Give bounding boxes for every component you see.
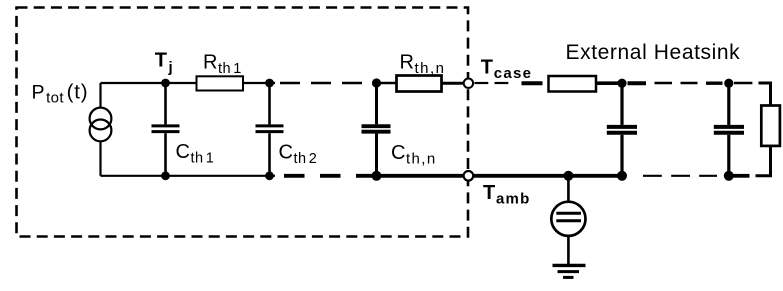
heatsink resistor (horizontal) [549, 76, 597, 92]
bottom rail dashed thick (continuation) [284, 174, 372, 178]
node T_j [161, 79, 170, 88]
heatsink capacitor 1 [607, 83, 637, 176]
wire: source top to R_th1 [101, 82, 197, 84]
node heatsink cap 2 top [724, 79, 733, 88]
bottom dashed run in heatsink [643, 175, 717, 177]
resistor R_th,n [397, 76, 442, 92]
node C_th2 bottom [265, 171, 274, 180]
bottom rail (left, solid) [101, 175, 276, 177]
dashed enclosure box [17, 8, 469, 237]
node voltage source tap [563, 171, 573, 181]
dashed wire (continuation) [280, 82, 362, 84]
wire: vertical resistor to bottom-right corner [756, 146, 771, 176]
resistor R_th1 [197, 76, 244, 90]
dashed wire: heatsink top run [628, 81, 723, 85]
thick dash after node [734, 174, 750, 178]
capacitor C_th1 [152, 83, 180, 176]
svg-text:External Heatsink: External Heatsink [566, 41, 741, 64]
dashed wire: T_case to heatsink resistor [475, 82, 543, 84]
node C_th,n bottom [372, 171, 382, 181]
voltage source (ambient temperature) [551, 176, 585, 264]
wire: resistor to heatsink node 1 [596, 81, 622, 85]
node heatsink cap 1 top [617, 79, 626, 88]
node heatsink cap 2 bottom [724, 171, 734, 181]
wire: R_th1 to node 2 [243, 82, 275, 84]
capacitor C_th,n [362, 83, 391, 176]
wire: node to R_th,n [377, 82, 397, 85]
heatsink resistor (vertical) [761, 106, 780, 146]
dash to top-right corner [734, 82, 752, 84]
heatsink capacitor 2 [714, 83, 744, 176]
node T_amb (open) [464, 171, 474, 181]
node C_th1 bottom [161, 171, 170, 180]
node (C_th2 top) [265, 79, 274, 88]
current source P_tot(t) [90, 83, 112, 176]
node T_case (open) [464, 79, 473, 88]
capacitor C_th2 [256, 83, 284, 176]
thick rail to T_amb [377, 174, 464, 178]
node heatsink cap 1 bottom [617, 171, 627, 181]
node (C_th,n top) [372, 78, 381, 87]
thick rail T_amb to heatsink [474, 174, 622, 178]
ground [553, 265, 586, 277]
wire: top-right corner down to vertical resistor [759, 83, 771, 106]
wire: R_th,n to T_case [442, 82, 464, 85]
